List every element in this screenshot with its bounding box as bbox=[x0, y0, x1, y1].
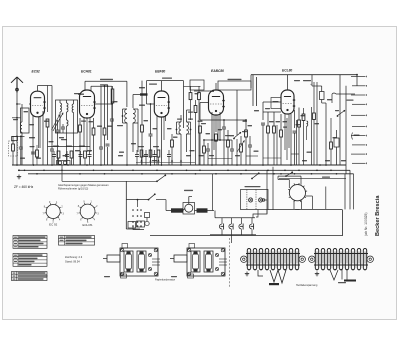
resistor R1 box bbox=[9, 136, 18, 165]
ground A bbox=[245, 272, 249, 276]
wire down mid bbox=[231, 235, 233, 243]
resistor R6 bbox=[103, 85, 106, 165]
wire V1 anode bbox=[38, 86, 53, 113]
wire right v1 bbox=[339, 75, 341, 165]
resistor R7 bbox=[141, 81, 144, 165]
svg-text:Papierkondensator: Papierkondensator bbox=[155, 279, 175, 282]
grid stopper R8 bbox=[140, 93, 148, 95]
wire elec rail bottom bbox=[210, 234, 256, 236]
gap labels bbox=[119, 150, 312, 153]
wire 560pF line bbox=[91, 86, 112, 109]
fuse holder bbox=[183, 190, 195, 214]
label T1 bbox=[117, 125, 123, 126]
component row B bbox=[135, 146, 195, 165]
wire maze 1 bbox=[278, 171, 301, 184]
table 2 bbox=[13, 254, 47, 267]
capacitor C12 bbox=[230, 140, 234, 165]
wire sw out bbox=[156, 200, 166, 211]
oscillator box bbox=[56, 100, 78, 133]
wire maze 6 bbox=[262, 178, 346, 201]
wire V2 anode top bbox=[85, 81, 127, 107]
wires under A bbox=[258, 270, 286, 285]
capacitor C17 block bbox=[334, 130, 339, 165]
wire bus 3 bbox=[28, 173, 354, 175]
lamp 2 bbox=[259, 198, 263, 202]
wire maze 4 bbox=[306, 180, 326, 210]
capacitor C15 bbox=[293, 131, 297, 165]
resistor R9 bbox=[171, 134, 174, 165]
label 70mA bbox=[347, 100, 354, 101]
socket diagram ECH81 bbox=[77, 202, 100, 227]
label 0.2V bbox=[13, 119, 35, 138]
wire h mid1 bbox=[48, 146, 91, 148]
label ECL80 bbox=[282, 69, 292, 73]
bus junction dots bbox=[16, 164, 337, 175]
wire elec rail top bbox=[215, 211, 255, 218]
capacitor C6 bbox=[61, 124, 65, 133]
capacitor C1 bbox=[19, 136, 23, 165]
wire V5 pins bbox=[291, 110, 295, 165]
wire long rail 236 bbox=[150, 210, 343, 236]
wire drop 253 bbox=[253, 75, 257, 106]
label under D1 bbox=[155, 279, 175, 282]
antenna coil box bbox=[21, 108, 30, 133]
label EABC80 bbox=[211, 69, 224, 73]
label EC92 bbox=[32, 70, 40, 74]
tube V1 EC92 bbox=[31, 91, 46, 117]
resistor R15 bbox=[245, 120, 248, 165]
wire maze 2 bbox=[278, 176, 289, 188]
shield box V4 a bbox=[190, 80, 216, 90]
tube V5 ECL80 bbox=[281, 90, 295, 114]
shield box V4 b bbox=[194, 90, 214, 92]
wire tie h stage5 bbox=[263, 154, 299, 158]
wire down right2 bbox=[350, 170, 354, 209]
wire V3 top box bbox=[147, 81, 184, 128]
label v4 vals bbox=[201, 123, 247, 156]
dashed separator bbox=[229, 238, 231, 288]
coil L3 osc bbox=[72, 100, 73, 165]
IF transformer T1 bbox=[122, 109, 138, 165]
tube pin extra V1 bbox=[38, 117, 40, 148]
svg-text:Röhrenvoltmeter (g/10/12): Röhrenvoltmeter (g/10/12) bbox=[58, 187, 88, 191]
wire antenna down bbox=[16, 93, 20, 166]
svg-text:Heizfadenspannung: Heizfadenspannung bbox=[296, 284, 318, 287]
lamp box bbox=[241, 186, 269, 210]
resistor R17 bbox=[273, 112, 276, 165]
coil L5 bbox=[307, 121, 308, 140]
capacitor C13 bbox=[248, 136, 252, 165]
wire tie h stage4 bbox=[208, 156, 258, 159]
label reg bbox=[188, 112, 193, 113]
junction box lamps2 bbox=[57, 161, 71, 166]
resistor R22 bbox=[302, 108, 305, 165]
label 470pF 1500V bbox=[100, 79, 113, 80]
wire stage3 v bbox=[177, 134, 191, 165]
text Gleichspannungen bbox=[58, 183, 109, 191]
mechanical drawing D2 bbox=[170, 244, 227, 279]
coil L1 bbox=[20, 104, 22, 165]
text zeichen bbox=[65, 255, 83, 264]
value labels scatter bbox=[20, 87, 346, 161]
capacitor C0 bbox=[12, 137, 18, 141]
switch S2 bbox=[148, 191, 158, 201]
tube V2 ECH81 bbox=[80, 90, 96, 118]
shield box ECL80 top bbox=[251, 74, 358, 88]
wire h ant2 bbox=[12, 136, 25, 138]
svg-text:Gleichspannungen gegen Masse g: Gleichspannungen gegen Masse gemessen bbox=[58, 183, 109, 187]
svg-text:ECH 81: ECH 81 bbox=[83, 223, 94, 227]
lamp 1 bbox=[249, 198, 253, 202]
wire T2 top bbox=[181, 110, 191, 122]
capacitor C14 bbox=[261, 123, 265, 165]
label osc vals bbox=[61, 93, 86, 140]
component row A bbox=[52, 146, 92, 166]
wire h ant1 bbox=[12, 117, 21, 119]
resistor R2 bbox=[46, 119, 49, 165]
vibrator housing bbox=[128, 221, 145, 228]
wire pwr rail h bbox=[126, 199, 148, 201]
brace bbox=[352, 133, 360, 140]
socket diagram EC92 bbox=[43, 202, 65, 227]
choke CH1 black bbox=[166, 208, 183, 212]
capacitor C2 bbox=[50, 86, 54, 166]
svg-text:EC 92: EC 92 bbox=[49, 223, 57, 227]
resistor R5 bbox=[92, 118, 95, 165]
IF transformer T2 bbox=[176, 122, 192, 165]
electrolytic C16 bbox=[310, 75, 326, 103]
wire V4 pins bbox=[212, 112, 220, 165]
svg-text:ECL80: ECL80 bbox=[282, 69, 292, 73]
wire V2 pins bbox=[84, 117, 90, 152]
svg-text:EABC80: EABC80 bbox=[211, 69, 224, 73]
terminal stubs bbox=[351, 76, 367, 164]
table 4 bbox=[59, 236, 95, 246]
resistor R3 bbox=[36, 145, 39, 165]
coil pack A bbox=[241, 248, 306, 270]
wire down right1 bbox=[344, 174, 346, 210]
potentiometer P1 bbox=[237, 136, 244, 165]
svg-text:Becker Brescia: Becker Brescia bbox=[375, 195, 381, 236]
tube V4 EABC80 bbox=[209, 90, 225, 115]
wire V3 pins bbox=[157, 115, 166, 165]
electrolytic bank bbox=[219, 218, 253, 235]
wire V5 grid bbox=[263, 102, 281, 120]
resistor R18 bbox=[280, 114, 283, 165]
label T2 a bbox=[177, 119, 193, 120]
label 9pF bbox=[294, 80, 311, 81]
wire h v4b bbox=[203, 139, 232, 142]
text ab Nr bbox=[364, 212, 368, 236]
capacitor C10 bbox=[206, 143, 210, 165]
wire out2 bbox=[312, 79, 326, 165]
wire pilot hook bbox=[253, 210, 267, 219]
resistor R16 bbox=[267, 112, 270, 165]
ground B bbox=[315, 272, 319, 276]
resistor R4 bbox=[79, 118, 82, 165]
trim cap C3 bbox=[56, 120, 60, 165]
wire long rail 209 bbox=[166, 208, 300, 210]
switch meter bbox=[233, 132, 241, 165]
wire out curve bbox=[332, 93, 355, 103]
labels v5 bbox=[265, 108, 287, 128]
resistor R25 bbox=[194, 100, 197, 165]
wire maze 3 bbox=[267, 167, 283, 214]
resistor R23 bbox=[189, 86, 192, 120]
table 1 bbox=[13, 236, 47, 249]
wire V2 grid bbox=[95, 103, 113, 105]
wire drop 237 bbox=[236, 90, 238, 135]
svg-text:ZF = 460 kHz: ZF = 460 kHz bbox=[14, 185, 34, 189]
tuning arrow 2 bbox=[53, 113, 63, 131]
resistor R19 bbox=[298, 108, 301, 166]
wire h v5 bbox=[263, 111, 281, 113]
tube pin extra V3 bbox=[163, 117, 165, 141]
antenna bbox=[11, 77, 23, 93]
resistor R12 bbox=[203, 140, 206, 165]
wire right v2 bbox=[345, 86, 347, 174]
text Becker Brescia bbox=[375, 195, 381, 236]
wire T1 top bbox=[133, 95, 147, 109]
wire 86 line bbox=[184, 85, 201, 87]
wire V4 grid left bbox=[200, 103, 209, 121]
tube pin extra V5 bbox=[277, 114, 297, 166]
label NSF Mg bbox=[322, 177, 330, 178]
choke CH2 black bbox=[195, 174, 215, 213]
switch below bus bbox=[251, 172, 260, 179]
svg-text:Zeichnung: 2.3: Zeichnung: 2.3 bbox=[65, 255, 83, 259]
wire v stage2 bbox=[106, 85, 110, 165]
resistor R20 bbox=[313, 82, 316, 165]
capacitor C7 bbox=[99, 86, 103, 165]
wire V1 grid bbox=[29, 103, 31, 105]
wire ground bus bbox=[12, 164, 346, 166]
wire V3 grid bbox=[147, 92, 155, 104]
wire pwr feed bbox=[62, 165, 166, 182]
wire h v4 bbox=[200, 119, 247, 121]
tube V3 EBF80 bbox=[154, 91, 170, 117]
svg-text:+: + bbox=[310, 82, 312, 86]
switch S1 bbox=[335, 110, 345, 117]
capacitor C8 bbox=[110, 86, 114, 165]
label under combs bbox=[296, 284, 318, 287]
wire V5 top bbox=[287, 75, 289, 90]
label 560pF bbox=[100, 84, 108, 85]
label 470pF v3 bbox=[149, 78, 172, 85]
vibrator M1 bbox=[288, 183, 307, 202]
resistor R21 bbox=[330, 118, 333, 165]
resistor R24 bbox=[198, 86, 201, 165]
capacitor C9 bbox=[149, 103, 153, 165]
mechanical drawing D1 bbox=[103, 244, 160, 279]
wire v 311 bbox=[311, 107, 313, 165]
resistor R11 bbox=[199, 126, 202, 165]
vibrator contacts bbox=[132, 199, 144, 230]
resistor R14 bbox=[227, 130, 230, 165]
svg-text:(ab Nr. 100325): (ab Nr. 100325) bbox=[364, 212, 368, 236]
tube pin extra V4 bbox=[214, 115, 218, 151]
wire bus 2 bbox=[18, 169, 350, 171]
svg-text:Stand: 09.54: Stand: 09.54 bbox=[65, 260, 80, 264]
resistor R13 bbox=[215, 134, 218, 165]
tube pin extra V2 bbox=[86, 118, 88, 152]
svg-text:EC92: EC92 bbox=[32, 70, 40, 74]
wire V1 pins bbox=[33, 111, 43, 165]
component box NSF bbox=[271, 98, 281, 109]
svg-text:ECH81: ECH81 bbox=[81, 69, 92, 73]
capacitor C11 bbox=[222, 120, 226, 165]
coil pack B bbox=[309, 248, 374, 270]
label ECH81 bbox=[81, 69, 92, 73]
svg-text:EBF80: EBF80 bbox=[155, 69, 165, 73]
wires under B bbox=[330, 270, 356, 284]
wire maze 5 bbox=[294, 201, 343, 210]
tuning arrow 1 bbox=[52, 115, 60, 130]
wire pwr left rail bbox=[126, 181, 140, 229]
label EBF80 bbox=[155, 69, 165, 73]
capacitor C4 bbox=[30, 146, 36, 154]
table 3 bbox=[12, 272, 48, 281]
label 100pF 250V bbox=[228, 79, 242, 80]
coil L2 osc bbox=[60, 100, 68, 165]
component small pwr bbox=[145, 213, 150, 226]
shield box V4 c bbox=[218, 81, 251, 90]
text ZF bbox=[14, 185, 34, 189]
ground symbol main bbox=[17, 169, 21, 178]
